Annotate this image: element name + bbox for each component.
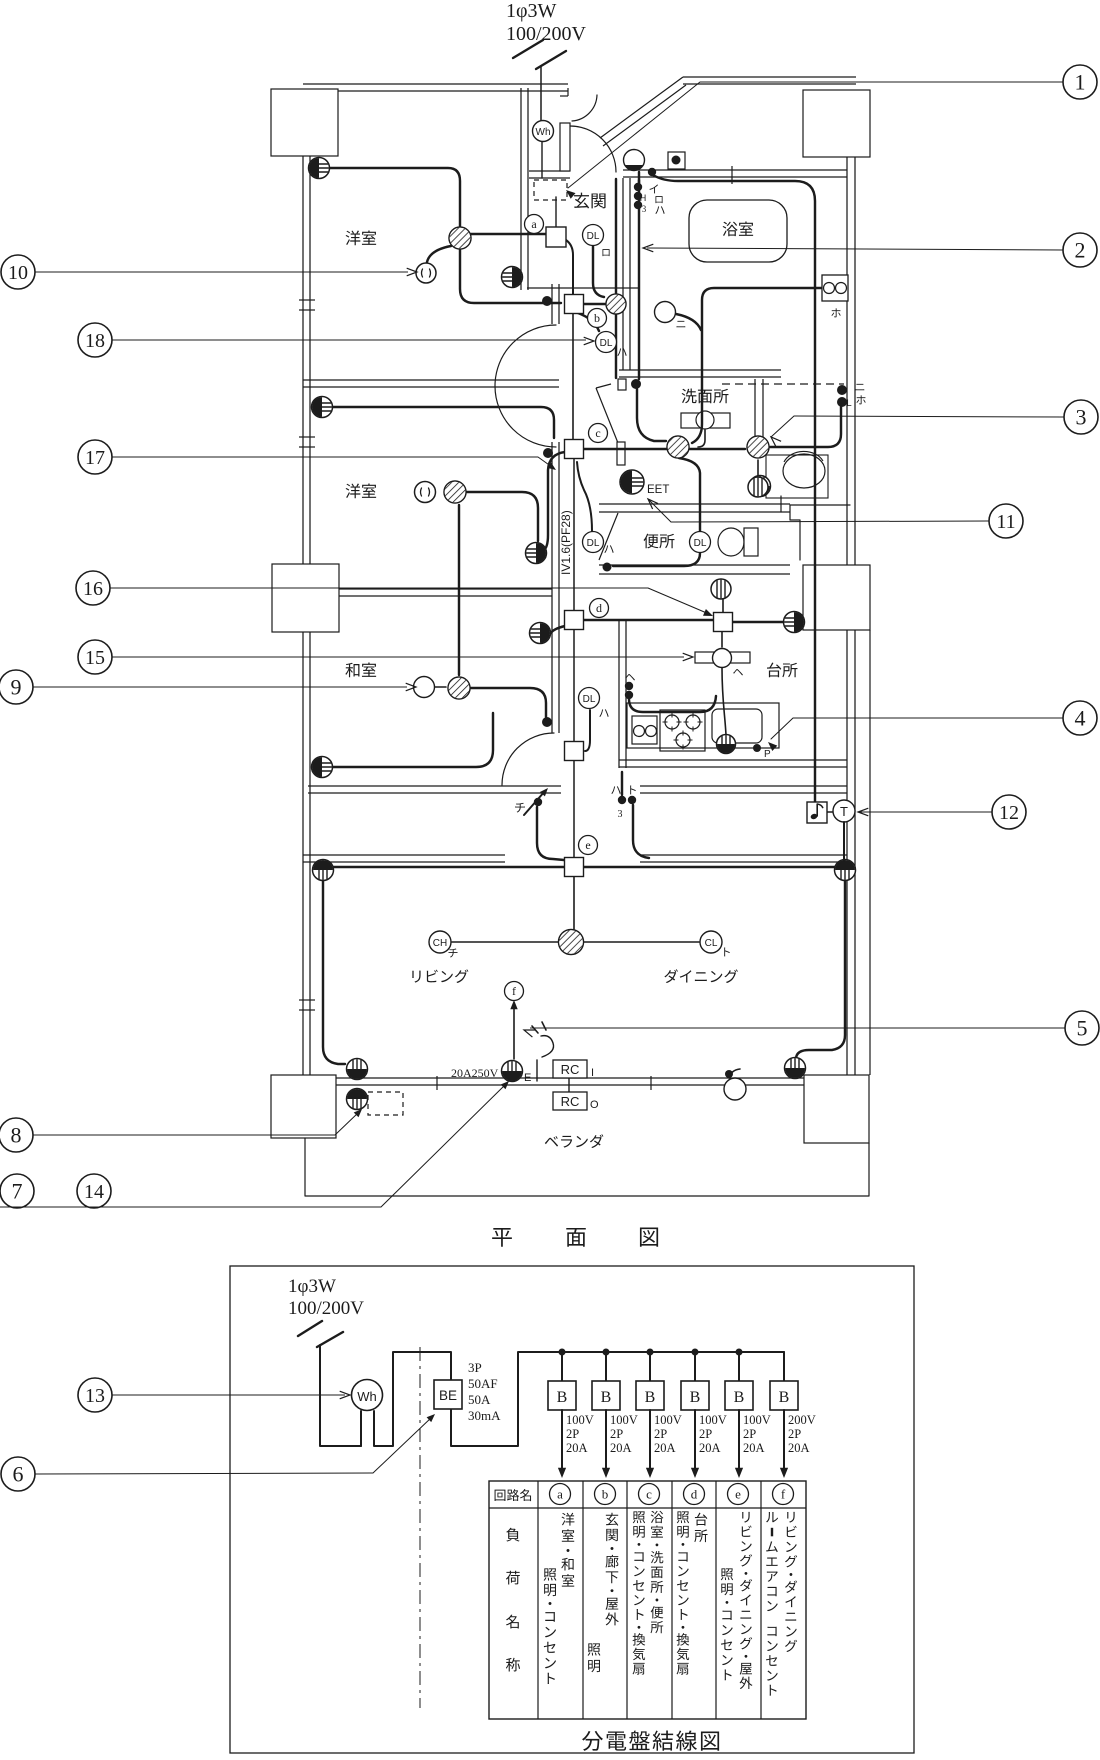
- junction mid: [565, 742, 584, 761]
- wire o3 to corridor: [333, 407, 554, 438]
- svg-text:100V: 100V: [566, 1413, 594, 1427]
- switch pair ha-to: [611, 785, 636, 820]
- window tick left wall 1: [299, 300, 315, 310]
- block bottom-left balcony: [271, 1075, 336, 1138]
- wire e down to living light: [573, 876, 575, 929]
- wall diagonal entrance porch: [600, 77, 686, 146]
- table col f load: [766, 1512, 797, 1696]
- panel table grid: [489, 1481, 806, 1719]
- junction c: [565, 424, 608, 459]
- wall between yoshitsu rooms: [303, 380, 559, 387]
- balcony outline: [305, 1138, 869, 1196]
- svg-text:e: e: [585, 838, 590, 852]
- bath wall lamp ni: [655, 302, 686, 328]
- wire c to d corridor: [573, 458, 575, 611]
- svg-text:200V: 200V: [788, 1413, 816, 1427]
- wire e right: [583, 866, 836, 868]
- wire hato to switch down: [633, 805, 649, 858]
- svg-text:30mA: 30mA: [468, 1408, 501, 1423]
- washitsu door arc: [502, 733, 554, 785]
- svg-text:20A: 20A: [788, 1441, 810, 1455]
- svg-text:f: f: [781, 1487, 786, 1502]
- svg-text:3: 3: [618, 809, 623, 820]
- wall top-left horizontal: [303, 84, 568, 91]
- laundry pan and oval: [766, 451, 828, 498]
- outlet O3 yoshitsu2: [312, 397, 333, 418]
- svg-text:DL: DL: [587, 231, 600, 242]
- wall living south: [336, 1078, 804, 1085]
- switch pair ni-ho: [837, 384, 866, 409]
- label living: [412, 969, 468, 983]
- panel BE ratings: [468, 1360, 501, 1423]
- panel outer box: [230, 1266, 914, 1753]
- wire balcony light: [729, 1069, 740, 1078]
- callout 14: [0, 1081, 509, 1208]
- svg-text:15: 15: [85, 647, 105, 669]
- wire corridor light to bath fan: [757, 460, 759, 475]
- fan kitchen: [711, 576, 731, 599]
- table col b load: [588, 1513, 619, 1673]
- service drop 1phi3W label: [506, 0, 587, 45]
- wire washroom light to toilet DL: [613, 458, 700, 566]
- wire b to hatched hall light: [584, 303, 605, 305]
- outlet living left: [313, 860, 334, 881]
- label IV1.6 PF28: [559, 510, 573, 575]
- wire d to e corridor: [573, 629, 575, 858]
- callout 13: [78, 1378, 350, 1412]
- entrance door leaf+arc: [560, 95, 616, 172]
- svg-text:2P: 2P: [699, 1427, 712, 1441]
- wire living right wall: [796, 880, 845, 1058]
- svg-text:2P: 2P: [654, 1427, 667, 1441]
- svg-text:L: L: [846, 398, 851, 409]
- svg-text:B: B: [645, 1389, 656, 1406]
- junction a: [525, 215, 567, 248]
- toilet door: [599, 513, 618, 572]
- svg-text:IV1.6(PF28): IV1.6(PF28): [559, 510, 573, 575]
- label genkan: [574, 193, 606, 209]
- caption heimenzu: [492, 1228, 658, 1247]
- callout 17: [78, 440, 556, 474]
- outlet kitchen right: [784, 612, 805, 633]
- DL hall upper: [596, 332, 627, 356]
- outlet living right: [835, 860, 856, 881]
- svg-text:2P: 2P: [743, 1427, 756, 1441]
- washer outlet box: [822, 275, 848, 317]
- svg-text:20A250V: 20A250V: [451, 1066, 499, 1080]
- wall washitsu south: [308, 786, 847, 793]
- light hatched washroom: [667, 436, 689, 458]
- svg-text:11: 11: [996, 511, 1015, 533]
- wire b to c corridor: [572, 313, 574, 440]
- wall left lower: [303, 632, 310, 1075]
- svg-text:Wh: Wh: [357, 1389, 377, 1404]
- washbasin: [681, 411, 730, 429]
- svg-text:DL: DL: [587, 538, 600, 549]
- svg-text:T: T: [840, 804, 848, 819]
- outlet balcony in: [347, 1059, 368, 1080]
- wire d to kitchen junction: [583, 619, 714, 621]
- wire genkan switches down: [616, 179, 639, 379]
- table col e load: [721, 1512, 753, 1689]
- callout 4: [768, 701, 1097, 751]
- table header kairomei: [495, 1489, 531, 1501]
- callout 8: [0, 1109, 362, 1152]
- label benjo: [644, 534, 675, 549]
- callout 18: [78, 323, 594, 357]
- wire washer outlet run: [692, 288, 822, 443]
- svg-text:100/200V: 100/200V: [506, 23, 587, 45]
- DL genkan: [583, 225, 610, 257]
- wire long kitchen drop: [653, 175, 815, 802]
- table col c load: [633, 1511, 664, 1675]
- panel wire meter loop: [361, 1352, 451, 1446]
- wire genkan switch junction to washroom: [637, 389, 666, 441]
- wire d to outlet: [551, 626, 565, 633]
- svg-text:d: d: [691, 1487, 698, 1502]
- svg-text:13: 13: [85, 1385, 105, 1407]
- svg-text:12: 12: [999, 802, 1019, 824]
- label senmenjo: [682, 389, 729, 404]
- callout 15: [78, 640, 693, 674]
- svg-text:100V: 100V: [743, 1413, 771, 1427]
- CL dining: [700, 931, 730, 956]
- label washitsu: [345, 663, 376, 678]
- callout 1: [566, 65, 1097, 199]
- switch pair he: [625, 674, 635, 699]
- callout 11: [648, 499, 1023, 538]
- svg-text:18: 18: [85, 330, 105, 352]
- rose yoshitsu2: [415, 482, 436, 503]
- wall top-right horizontal: [683, 77, 856, 84]
- wire e left: [334, 866, 565, 868]
- wire light1 down to corridor dot: [460, 249, 561, 303]
- svg-text:20A: 20A: [699, 1441, 721, 1455]
- svg-text:H: H: [640, 193, 647, 203]
- wire a to b corridor: [566, 240, 573, 294]
- switch chi: [515, 788, 548, 815]
- outlet O6 washitsu: [312, 757, 333, 778]
- wire basin: [698, 430, 705, 447]
- callout 10: [1, 255, 417, 289]
- junction kitchen: [714, 613, 733, 632]
- svg-text:10: 10: [8, 262, 28, 284]
- dashed box balcony: [368, 1092, 403, 1115]
- svg-text:100V: 100V: [654, 1413, 682, 1427]
- wall kitchen west: [619, 620, 626, 768]
- svg-text:6: 6: [13, 1462, 24, 1487]
- wire yoshitsu1 outlet to light: [330, 168, 460, 226]
- wall right full: [847, 157, 855, 1075]
- caption bundenban: [582, 1730, 719, 1750]
- svg-text:DL: DL: [583, 694, 596, 705]
- balcony rail ticks: [437, 1076, 651, 1090]
- hood fan: [695, 649, 750, 676]
- RC box I: [553, 1060, 594, 1079]
- wire hood to counter outlet: [722, 668, 726, 735]
- wire washitsu light right: [470, 688, 546, 717]
- svg-text:EET: EET: [647, 484, 669, 496]
- wire c row washroom lights: [583, 448, 745, 450]
- svg-text:2P: 2P: [566, 1427, 579, 1441]
- svg-text:CL: CL: [705, 938, 718, 949]
- outlet O5 corridor washitsu: [530, 623, 551, 644]
- svg-text:8: 8: [11, 1123, 22, 1148]
- svg-text:100V: 100V: [610, 1413, 638, 1427]
- wire genkan DL to hall light: [593, 245, 604, 297]
- corridor wall lower: [552, 579, 559, 733]
- svg-text:17: 17: [85, 447, 105, 469]
- wire c to outlet left: [543, 452, 565, 551]
- DL hall mid: [583, 532, 614, 553]
- svg-text:3P: 3P: [468, 1360, 482, 1375]
- svg-text:50AF: 50AF: [468, 1376, 498, 1391]
- callout 9: [0, 670, 416, 704]
- svg-text:20A: 20A: [654, 1441, 676, 1455]
- svg-text:E: E: [524, 1072, 531, 1084]
- svg-text:CH: CH: [433, 938, 447, 949]
- svg-text:b: b: [594, 311, 600, 325]
- panel dashdot separator: [419, 1347, 421, 1708]
- svg-text:e: e: [735, 1487, 741, 1502]
- svg-text:100V: 100V: [699, 1413, 727, 1427]
- porch light: [624, 150, 645, 171]
- panel Wh: [352, 1380, 383, 1411]
- svg-text:20A: 20A: [610, 1441, 632, 1455]
- svg-text:DL: DL: [600, 338, 613, 349]
- DL hall lower: [579, 688, 609, 717]
- svg-text:O: O: [590, 1099, 599, 1111]
- wire chime to T: [827, 811, 835, 813]
- chime: [807, 802, 827, 823]
- breakers B row: [548, 1349, 816, 1479]
- svg-text:a: a: [557, 1487, 563, 1502]
- wire chi switch down to e: [537, 807, 564, 860]
- wire he switches: [629, 696, 716, 712]
- svg-text:1φ3W: 1φ3W: [288, 1276, 336, 1297]
- svg-text:DL: DL: [694, 538, 707, 549]
- wall kitchen south: [619, 760, 847, 767]
- wire light1 to a-junction: [471, 233, 546, 235]
- svg-text:4: 4: [1075, 706, 1086, 731]
- light hatched hall upper: [606, 294, 626, 314]
- balcony lamp: [724, 1070, 746, 1100]
- svg-text:RC: RC: [561, 1062, 580, 1077]
- bathtub: [689, 200, 787, 262]
- svg-text:1: 1: [1075, 70, 1086, 95]
- label dining: [664, 969, 737, 983]
- block top-left balcony: [271, 89, 338, 156]
- junction dot washroom: [631, 379, 641, 389]
- entrance bay walls: [521, 88, 640, 290]
- wire rc connect: [537, 1060, 569, 1092]
- svg-text:20A: 20A: [566, 1441, 588, 1455]
- svg-text:5: 5: [1077, 1016, 1088, 1041]
- switch trio genkan: [634, 183, 665, 214]
- panel service symbol: [298, 1321, 343, 1360]
- junction d: [565, 599, 609, 630]
- callout 7: [0, 1174, 34, 1208]
- svg-text:f: f: [512, 984, 516, 998]
- callout 12: [858, 795, 1026, 829]
- wire b to DL hall upper: [578, 313, 599, 331]
- table header circuit letters: [550, 1484, 794, 1505]
- wire DL lower to square: [585, 710, 590, 751]
- outlet kitchen counter: [717, 735, 772, 761]
- svg-text:d: d: [596, 601, 602, 615]
- table col a load: [544, 1513, 575, 1684]
- wire washitsu light to rose: [435, 686, 446, 688]
- wire Wh to board: [542, 141, 556, 227]
- callout 16: [76, 571, 713, 616]
- wall left upper: [303, 156, 310, 564]
- svg-text:16: 16: [83, 578, 103, 600]
- svg-text:a: a: [531, 217, 537, 231]
- table col d load: [677, 1511, 708, 1674]
- wire CH light CL row: [452, 941, 699, 943]
- svg-text:B: B: [557, 1389, 568, 1406]
- wall hall-living: [303, 855, 847, 862]
- wall washitsu north: [339, 589, 552, 596]
- junction dot corridor1: [542, 296, 552, 306]
- wire nih switches to corridor light: [770, 406, 841, 447]
- wire l2 right: [466, 492, 538, 541]
- svg-text:B: B: [734, 1389, 745, 1406]
- light hatched washitsu: [448, 677, 470, 699]
- junction e: [565, 836, 598, 877]
- light hatched living: [559, 930, 584, 955]
- svg-text:9: 9: [11, 675, 22, 700]
- wire kitchen junction to fan: [722, 599, 724, 613]
- block right-middle kitchen: [803, 565, 870, 630]
- svg-text:3: 3: [1076, 405, 1087, 430]
- table fuka meisho: [506, 1528, 520, 1672]
- callout 2: [643, 233, 1097, 267]
- wall toilet north: [599, 504, 790, 512]
- block middle-left: [272, 564, 339, 632]
- svg-text:Wh: Wh: [536, 127, 551, 138]
- svg-text:2: 2: [1075, 238, 1086, 263]
- DL toilet: [690, 532, 711, 553]
- wire ni lamp feed: [676, 314, 701, 330]
- kitchen counter: [627, 703, 779, 751]
- outlet washroom: [750, 476, 771, 497]
- label veranda: [545, 1134, 604, 1148]
- block top-right balcony: [803, 90, 870, 157]
- svg-text:P: P: [764, 749, 771, 760]
- label yokushitsu: [723, 222, 754, 237]
- svg-text:20A: 20A: [743, 1441, 765, 1455]
- wire l2 up: [458, 505, 460, 675]
- exhaust box genkan: [668, 152, 685, 169]
- label yoshitsu 1: [346, 231, 377, 246]
- service entrance symbol: [513, 40, 566, 121]
- wire hato up stub: [621, 772, 623, 795]
- svg-text:14: 14: [84, 1181, 104, 1203]
- outlet EET toilet: [620, 470, 669, 496]
- junction dot corridor2: [543, 448, 553, 458]
- light hatched corridor e: [747, 436, 769, 458]
- window tick left wall 2: [299, 437, 315, 447]
- wall washroom north: [619, 370, 844, 445]
- callout 5: [524, 1011, 1099, 1045]
- wire kitchen junction to hood: [721, 631, 723, 647]
- svg-text:1φ3W: 1φ3W: [506, 0, 557, 22]
- svg-text:2P: 2P: [788, 1427, 801, 1441]
- wire switches up to porch light: [638, 172, 640, 183]
- bath fan: [748, 477, 768, 500]
- wire light1 to rose: [427, 246, 451, 262]
- outlet 20A250VE: [451, 1061, 531, 1085]
- svg-text:2P: 2P: [610, 1427, 623, 1441]
- light hatched yoshitsu2: [444, 481, 466, 503]
- outlet O1 yoshitsu1: [309, 158, 330, 179]
- wire washitsu outlet run: [333, 713, 493, 767]
- outlet O4 corridor upper: [526, 543, 547, 564]
- wire kitchen junction right outlet: [732, 621, 783, 623]
- label yoshitsu 2: [346, 484, 377, 499]
- svg-text:I: I: [591, 1067, 594, 1079]
- junction dot corridor3: [542, 717, 552, 727]
- plug cord symbol: [532, 1022, 554, 1057]
- rose washitsu: [414, 677, 435, 698]
- light hatched yoshitsu1: [449, 227, 471, 249]
- svg-text:B: B: [601, 1389, 612, 1406]
- rose yoshitsu1: [416, 263, 436, 283]
- window tick left wall 3: [299, 1000, 315, 1010]
- wall bath north: [623, 170, 847, 177]
- svg-text:50A: 50A: [468, 1392, 491, 1407]
- svg-text:c: c: [595, 426, 600, 440]
- wire f arrow: [510, 1000, 517, 1059]
- wire DL hall mid up: [577, 462, 592, 531]
- panel service label: [288, 1276, 364, 1319]
- svg-text:RC: RC: [561, 1094, 580, 1109]
- svg-text:b: b: [602, 1487, 609, 1502]
- CH living: [429, 931, 458, 957]
- panel wire service down: [320, 1352, 361, 1446]
- washroom door: [596, 379, 626, 465]
- svg-text:3: 3: [642, 204, 647, 214]
- svg-text:100/200V: 100/200V: [288, 1298, 364, 1319]
- callout 3: [771, 400, 1098, 447]
- junction dot entrance wire: [648, 168, 656, 176]
- junction b: [565, 295, 607, 328]
- svg-text:7: 7: [12, 1179, 23, 1204]
- callout 6: [1, 1414, 435, 1491]
- panel BE box: [434, 1380, 462, 1409]
- RC box O: [553, 1092, 599, 1111]
- wall toilet south: [599, 565, 790, 574]
- interphone T: [833, 800, 855, 861]
- genkan dashed distribution board: [534, 180, 567, 200]
- Wh meter plan: [533, 121, 554, 142]
- svg-text:B: B: [690, 1389, 701, 1406]
- svg-text:BE: BE: [439, 1388, 457, 1403]
- wire living left wall: [323, 880, 345, 1064]
- svg-text:c: c: [646, 1487, 652, 1502]
- svg-text:B: B: [779, 1389, 790, 1406]
- wall kitchen north step: [781, 496, 850, 560]
- window tick bath north: [731, 166, 733, 184]
- corridor wall upper: [552, 284, 559, 579]
- f rose circle: [505, 982, 524, 1001]
- block bottom-right balcony: [804, 630, 870, 1143]
- wall bath west: [623, 178, 630, 370]
- yoshitsu door arc: [495, 325, 556, 447]
- outlet dining south: [785, 1058, 806, 1079]
- toilet: [718, 528, 758, 556]
